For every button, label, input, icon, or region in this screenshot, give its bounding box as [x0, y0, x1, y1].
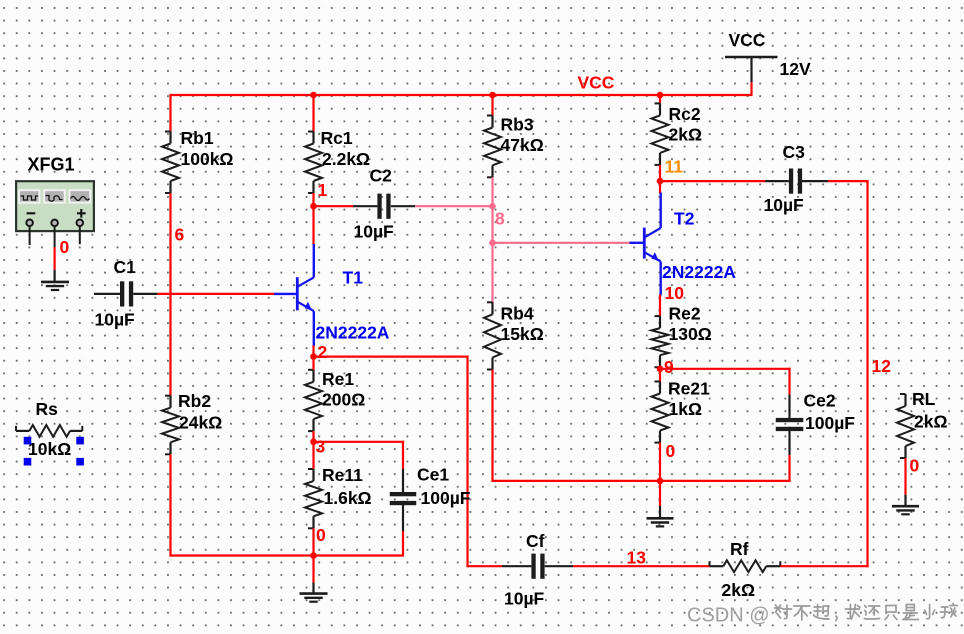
label Re2 [669, 304, 701, 324]
svg-text:Rf: Rf [730, 539, 749, 559]
svg-text:Rc1: Rc1 [321, 128, 353, 148]
svg-text:Rs: Rs [36, 399, 59, 419]
junction at ground node bottom-left [310, 552, 317, 559]
wire: node 11 to C3 (red) [660, 180, 765, 182]
resistor Rc1 [305, 132, 322, 194]
svg-text:Ce1: Ce1 [417, 465, 449, 485]
XFG1 terminal + [77, 220, 84, 227]
label T2 [674, 209, 695, 229]
node 8 label [495, 209, 505, 229]
svg-text:CSDN @: CSDN @ [687, 605, 770, 627]
svg-text:2.2kΩ: 2.2kΩ [322, 149, 370, 169]
label Rc2 [669, 104, 701, 124]
junction on VCC bus at Rb3 [489, 92, 496, 99]
selection handle Rs top-right [76, 437, 84, 445]
svg-text:1: 1 [318, 180, 328, 200]
resistor Rb2 [162, 396, 179, 455]
svg-text:1.6kΩ: 1.6kΩ [324, 488, 372, 508]
value 2.2k&#937; [322, 149, 370, 169]
power symbol VCC bar [725, 56, 778, 59]
label Rb2 [178, 391, 211, 411]
wire: bus to Rc2 top [659, 94, 661, 104]
value 1.6k&#937; [324, 488, 372, 508]
value 130&#937; [669, 324, 712, 344]
wire: Rb3 bottom to Rb4 top (pink, node 8) [491, 177, 493, 303]
wire: feedback bottom left (red) [468, 565, 503, 567]
node 6 label [175, 225, 185, 245]
svg-text:Rb4: Rb4 [501, 304, 534, 324]
wire: C3 to output column (red) [828, 180, 869, 182]
wire: node 9 horizontal to Ce2 [660, 368, 791, 370]
svg-text:VCC: VCC [578, 73, 615, 93]
label RL [912, 389, 936, 409]
junction on VCC bus at Rc1 [310, 92, 317, 99]
svg-text:0: 0 [910, 456, 920, 476]
power symbol VCC stem (black) [750, 57, 752, 82]
value 2k&#937; (RL) [914, 412, 948, 432]
wire: feedback column vertical [466, 356, 468, 568]
wire: Cf left lead [502, 565, 531, 567]
value 100&#181;F (Ce1) [421, 488, 471, 508]
wire: Rb2 bottom down [169, 454, 171, 556]
svg-text:Re1: Re1 [322, 369, 354, 389]
wire: T1 base lead (blue) [274, 293, 297, 295]
svg-text:100µF: 100µF [421, 488, 471, 508]
value 100&#181;F (Ce2) [805, 413, 855, 433]
wire: C2 to node 8 (pink) [415, 205, 494, 207]
capacitor Ce2 [776, 418, 804, 431]
label Re11 [322, 465, 363, 485]
svg-text:100kΩ: 100kΩ [181, 149, 234, 169]
svg-text:47kΩ: 47kΩ [501, 135, 544, 155]
value 15k&#937; [501, 324, 544, 344]
wire: Ce2 bottom to ground wire (red) [788, 455, 790, 482]
wire: Rb4 to ground node horizontal [491, 480, 790, 482]
node 11 label [665, 157, 684, 177]
svg-text:6: 6 [175, 225, 185, 245]
svg-text:0: 0 [60, 237, 70, 257]
label Re1 [322, 369, 354, 389]
label Rc1 [321, 128, 353, 148]
svg-text:2N2222A: 2N2222A [662, 262, 736, 282]
svg-text:2: 2 [318, 342, 328, 362]
label Cf [526, 531, 545, 551]
label Rb4 [501, 304, 534, 324]
junction at node 1 [310, 203, 317, 210]
resistor Re21 [652, 382, 669, 443]
svg-text:T1: T1 [343, 268, 364, 288]
label XFG1 [28, 155, 75, 175]
node 1 label [318, 180, 328, 200]
wire: C1 left lead [94, 293, 120, 295]
svg-text:Re11: Re11 [322, 465, 363, 485]
label Re21 [668, 379, 710, 399]
svg-text:XFG1: XFG1 [28, 155, 75, 175]
svg-text:0: 0 [316, 525, 326, 545]
svg-text:100µF: 100µF [805, 413, 855, 433]
wire: Rf to output column (red) [780, 565, 868, 567]
value 1k&#937; [669, 399, 703, 419]
value 10&#181;F (C2) [354, 222, 395, 242]
XFG1 terminal - [26, 220, 33, 227]
wire: Rb4 bottom down [491, 370, 493, 483]
node 0 label at Re11 [316, 525, 326, 545]
label C3 [783, 142, 806, 162]
wire: node 2 to feedback column [314, 356, 469, 358]
wire: Rc2 bottom to T2 collector (node 11) [659, 165, 661, 194]
svg-text:C2: C2 [370, 166, 393, 186]
wire: node3 to Re11 [312, 442, 314, 469]
svg-text:C3: C3 [783, 142, 806, 162]
wire: RL bottom to ground (red, node 0) [904, 458, 906, 495]
resistor Re1 [305, 370, 322, 431]
wire: ground stem second stage (red) [659, 481, 661, 506]
selection handle Rs top-left [24, 437, 32, 445]
capacitor Ce1 [390, 492, 417, 505]
ground symbol first stage [300, 594, 328, 602]
value 2k&#937; (Rc2) [669, 125, 703, 145]
label Rb3 [501, 115, 534, 135]
svg-text:VCC: VCC [729, 30, 766, 50]
wire: C1 right lead [133, 293, 157, 295]
wire: VCC stem to bus (red) [750, 82, 752, 96]
svg-text:C1: C1 [114, 257, 137, 277]
wire: RL ground stem (black) [904, 495, 906, 507]
node 9 label [664, 357, 674, 377]
svg-text:Rb1: Rb1 [181, 128, 214, 148]
svg-text:10kΩ: 10kΩ [28, 439, 71, 459]
node 12 label [872, 356, 892, 376]
junction at node 11 [657, 178, 664, 185]
svg-text:2kΩ: 2kΩ [669, 125, 703, 145]
ground symbol at XFG1 [41, 282, 69, 290]
svg-text:T2: T2 [674, 209, 695, 229]
wire: XFG1 mid pin stub (black) [54, 226, 56, 247]
resistor Re11 [305, 469, 322, 528]
value 12V [780, 59, 811, 79]
resistor Rb1 [162, 132, 179, 194]
wire: Re11 bottom to ground node [312, 528, 314, 556]
node 0 label at XFG1 [60, 237, 70, 257]
svg-text:Rb2: Rb2 [178, 391, 211, 411]
junction at node 8 upper (C2 tap) [489, 203, 496, 210]
junction at node 8 lower (T2 base tap) [489, 240, 496, 247]
resistor Rc2 [652, 103, 669, 164]
value 10&#181;F (C1) [95, 310, 136, 330]
label Ce1 [417, 465, 449, 485]
value 2N2222A (T1) [316, 323, 390, 343]
wire: bus to Rb1 top [169, 94, 171, 132]
svg-text:2kΩ: 2kΩ [914, 412, 948, 432]
wire: output column vertical (node 12) [866, 180, 868, 567]
label C1 [114, 257, 137, 277]
label C2 [370, 166, 393, 186]
node 2 label [318, 342, 328, 362]
svg-text:Re2: Re2 [669, 304, 701, 324]
wire: node 8 to T2 base (pink) [493, 242, 630, 244]
wire: C2 left lead [353, 205, 377, 207]
label VCC (power symbol) [729, 30, 766, 50]
wire: Re2 bottom to node 9 [659, 367, 661, 370]
wire: ground stem first stage (black) [312, 583, 314, 594]
resistor RL [897, 394, 914, 458]
wire: Cf right lead [545, 565, 573, 567]
wire: ground stem first stage (red) [312, 556, 314, 583]
function generator XFG1 body [16, 181, 94, 231]
net label VCC (red) [578, 73, 615, 93]
transistor T2 (2N2222A) [644, 193, 660, 296]
watermark CSDN [687, 604, 957, 627]
resistor Rf [710, 560, 781, 572]
node 0 label at RL [910, 456, 920, 476]
wire: bus to Rb3 top [491, 94, 493, 116]
svg-text:10µF: 10µF [354, 222, 395, 242]
svg-text:3: 3 [316, 437, 326, 457]
resistor Re2 [652, 316, 669, 367]
selection handle Rs bottom-left [24, 458, 32, 466]
svg-text:10: 10 [665, 283, 685, 303]
wire: Ce2 bottom lead [788, 427, 790, 455]
wire: C3 right lead [802, 180, 828, 182]
label T1 [343, 268, 364, 288]
node 10 label [665, 283, 685, 303]
value 10&#181;F (Cf) [504, 589, 545, 609]
wire: node1 to C2 (red) [314, 205, 354, 207]
junction at node 9 [657, 366, 664, 373]
wire: Re21 bottom to ground node [659, 443, 661, 482]
wire: XFG1 mid to ground (red, node 0) [53, 247, 55, 270]
wire: ground stem second stage (black) [659, 506, 661, 518]
wire: Ce2 top vertical (red) [788, 368, 790, 395]
value 200&#937; [322, 390, 365, 410]
value 100k&#937; [181, 149, 234, 169]
svg-text:9: 9 [664, 357, 674, 377]
value 2k&#937; (Rf) [722, 580, 756, 600]
wire: Re1 to node 3 [312, 431, 314, 443]
wire: C3 left lead [765, 180, 789, 182]
junction at node 3 [310, 439, 317, 446]
label Rf [730, 539, 749, 559]
wire: C2 right lead [391, 205, 415, 207]
svg-text:130Ω: 130Ω [669, 324, 712, 344]
value 24k&#937; [179, 413, 222, 433]
wire: node2 to Re1 [312, 357, 314, 370]
svg-text:15kΩ: 15kΩ [501, 324, 544, 344]
junction on VCC bus at Rc2 [657, 92, 664, 99]
junction at node 2 [310, 353, 317, 360]
wire: T1 emitter to node 2 (red) [312, 346, 314, 358]
svg-text:2N2222A: 2N2222A [316, 323, 390, 343]
capacitor C2 [377, 194, 390, 219]
wire: node 3 to Ce1 top [314, 441, 405, 443]
svg-text:12V: 12V [780, 59, 811, 79]
svg-text:10µF: 10µF [764, 195, 805, 215]
capacitor Cf [531, 554, 544, 579]
label Rs [36, 399, 59, 419]
XFG1 minus sign [27, 212, 36, 214]
junction at second stage ground node [657, 478, 664, 485]
node 0 label at Re21 [666, 441, 676, 461]
ground symbol second stage [647, 518, 674, 526]
svg-text:10µF: 10µF [504, 589, 545, 609]
svg-text:200Ω: 200Ω [322, 390, 365, 410]
svg-text:Cf: Cf [526, 531, 545, 551]
wire: ground stem (black) [53, 270, 55, 282]
label Rb1 [181, 128, 214, 148]
wire: C1 to T1 base (red, node 6) [157, 293, 274, 295]
svg-text:13: 13 [627, 548, 647, 568]
svg-text:10µF: 10µF [95, 310, 136, 330]
wire: bottom left horizontal to Ce1 [169, 554, 403, 556]
svg-text:Ce2: Ce2 [804, 391, 836, 411]
wire: Ce1 top lead [402, 469, 404, 492]
svg-text:11: 11 [665, 157, 684, 177]
capacitor C1 [120, 281, 133, 306]
svg-text:0: 0 [666, 441, 676, 461]
svg-text:Re21: Re21 [668, 379, 710, 399]
XFG1 plus sign [77, 209, 86, 218]
svg-text:Rb3: Rb3 [501, 115, 534, 135]
wire: Ce1 bottom lead [402, 501, 404, 531]
value 10&#181;F (C3) [764, 195, 805, 215]
svg-text:RL: RL [912, 389, 936, 409]
wire: bus to Rc1 top [312, 94, 314, 132]
svg-text:Rc2: Rc2 [669, 104, 701, 124]
selection handle Rs bottom-right [76, 458, 84, 466]
resistor Rs [16, 425, 82, 437]
wire: Cf to Rf (red, node 13) [573, 565, 710, 567]
value 47k&#937; [501, 135, 544, 155]
XFG1 terminal mid [51, 220, 58, 227]
label Ce2 [804, 391, 836, 411]
value 10k&#937; (Rs) [28, 439, 71, 459]
wire: VCC bus (net VCC) [170, 94, 751, 96]
wire: Ce1 top vertical (red) [402, 441, 404, 469]
node 13 label [627, 548, 647, 568]
resistor Rb3 [484, 116, 501, 178]
wire: XFG1 right pin stub [79, 226, 81, 244]
value 2N2222A (T2) [662, 262, 736, 282]
ground symbol at RL [892, 506, 919, 514]
capacitor C3 [789, 169, 802, 194]
wire: T2 emitter to Re2 (red, node 10) [659, 294, 661, 316]
resistor Rb4 [484, 302, 501, 369]
wire: XFG1 left pin stub [29, 226, 31, 245]
wire: Ce2 top lead [788, 395, 790, 418]
svg-text:1kΩ: 1kΩ [669, 399, 703, 419]
svg-text:24kΩ: 24kΩ [179, 413, 222, 433]
wire: Rc1 bottom to T1 collector (node 1) [312, 193, 314, 245]
wire: Ce1 bottom to ground wire (red) [402, 531, 404, 557]
svg-text:12: 12 [872, 356, 892, 376]
transistor T1 (2N2222A) [297, 244, 314, 347]
svg-text:2kΩ: 2kΩ [722, 580, 756, 600]
wire: node9 to Re21 top [659, 369, 661, 382]
wire: Rb1 bottom to Rb2 top (node 6) [169, 193, 171, 396]
wire: T2 base lead (blue) [630, 242, 644, 244]
node 3 label [316, 437, 326, 457]
svg-text:8: 8 [495, 209, 505, 229]
